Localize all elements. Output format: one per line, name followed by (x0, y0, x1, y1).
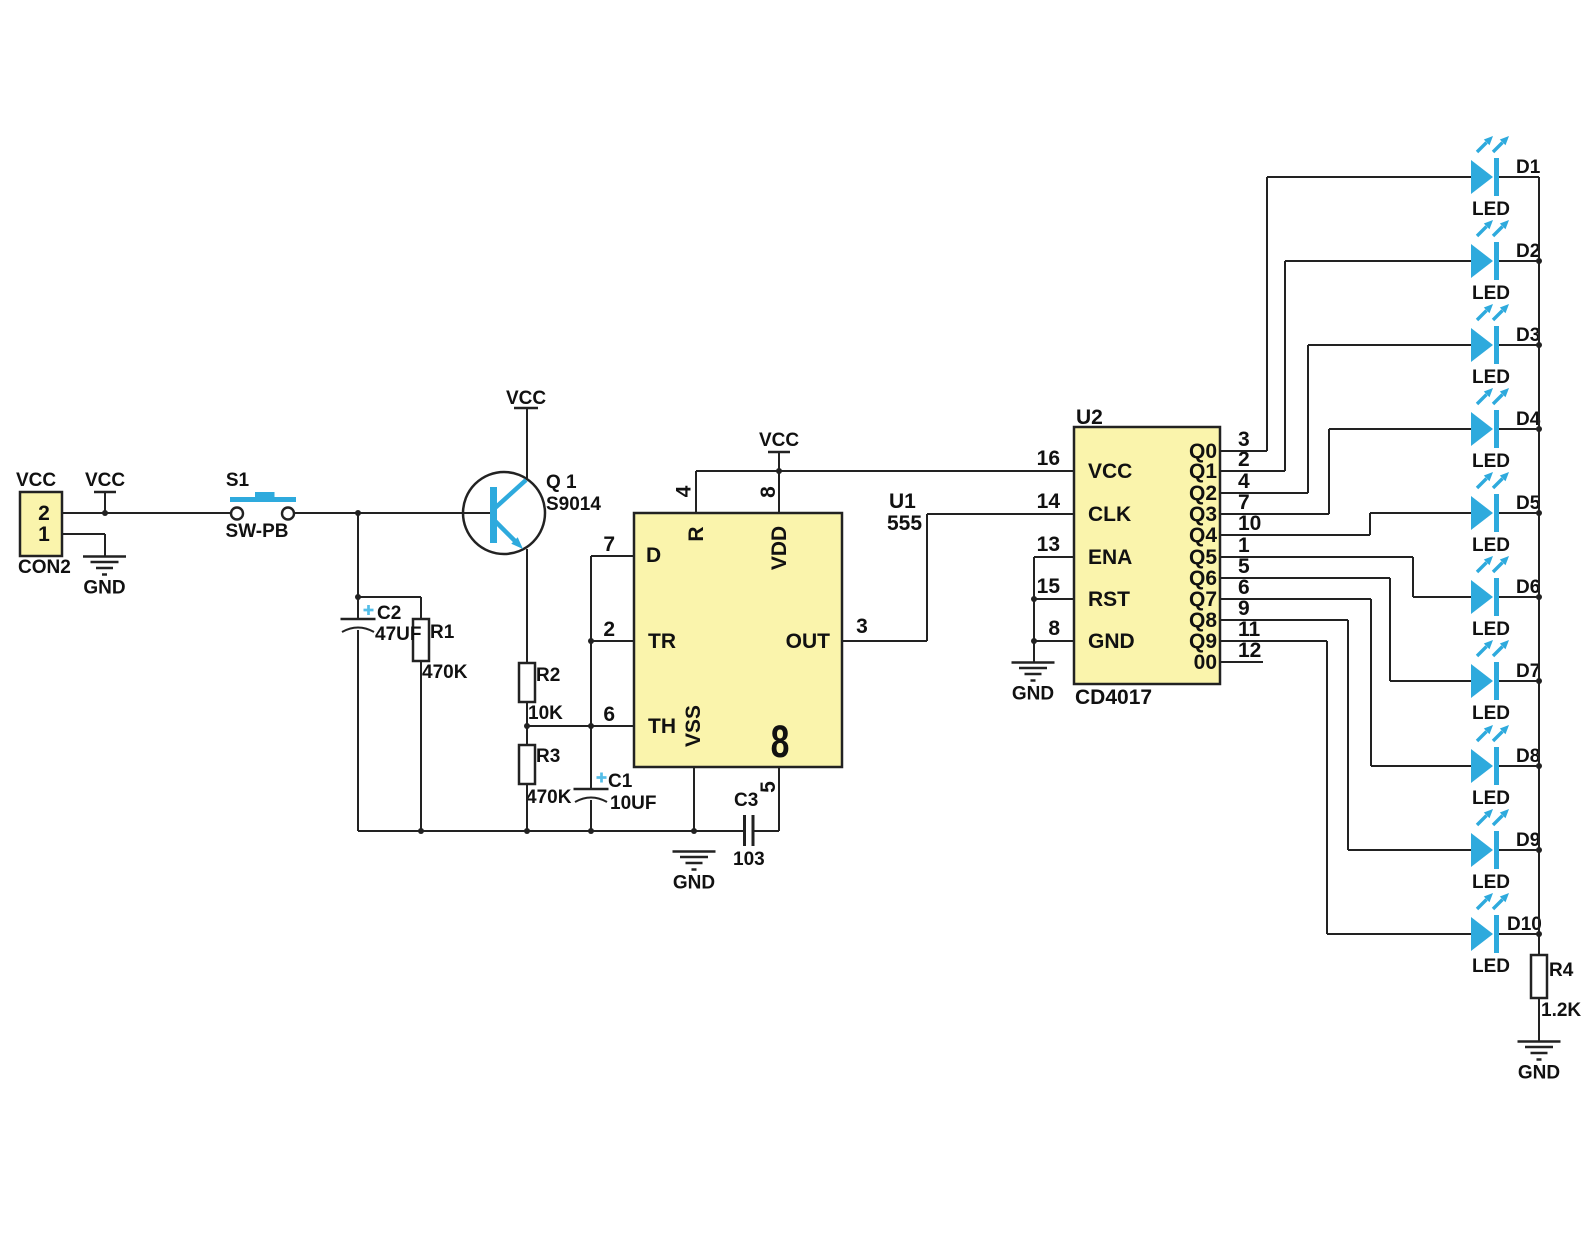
svg-text:CLK: CLK (1088, 503, 1131, 526)
svg-text:2: 2 (38, 502, 50, 525)
svg-text:Q1: Q1 (1189, 460, 1217, 483)
svg-text:Q9: Q9 (1189, 630, 1217, 653)
svg-text:LED: LED (1472, 619, 1510, 640)
svg-text:VCC: VCC (506, 388, 546, 409)
svg-text:Q8: Q8 (1189, 609, 1217, 632)
svg-text:7: 7 (1238, 491, 1250, 514)
svg-text:C2: C2 (377, 603, 401, 624)
svg-text:D2: D2 (1516, 241, 1540, 262)
svg-text:10: 10 (1238, 512, 1261, 535)
svg-text:R3: R3 (536, 746, 560, 767)
svg-text:CON2: CON2 (18, 557, 71, 578)
svg-text:3: 3 (856, 615, 868, 638)
svg-text:TH: TH (648, 715, 676, 738)
svg-text:GND: GND (83, 578, 125, 599)
svg-text:5: 5 (1238, 555, 1250, 578)
svg-text:LED: LED (1472, 872, 1510, 893)
svg-text:S9014: S9014 (546, 494, 601, 515)
svg-text:CD4017: CD4017 (1075, 686, 1152, 709)
svg-text:C3: C3 (734, 790, 758, 811)
svg-text:Q 1: Q 1 (546, 472, 577, 493)
svg-text:13: 13 (1037, 533, 1060, 556)
svg-text:D6: D6 (1516, 577, 1540, 598)
svg-text:47UF: 47UF (375, 624, 421, 645)
svg-text:470K: 470K (422, 662, 468, 683)
svg-text:2: 2 (603, 618, 615, 641)
svg-text:Q3: Q3 (1189, 503, 1217, 526)
svg-text:D7: D7 (1516, 661, 1540, 682)
svg-text:D1: D1 (1516, 157, 1541, 178)
svg-text:LED: LED (1472, 451, 1510, 472)
svg-text:TR: TR (648, 630, 676, 653)
svg-text:10UF: 10UF (610, 793, 656, 814)
svg-text:D9: D9 (1516, 830, 1540, 851)
svg-text:GND: GND (1012, 684, 1054, 705)
svg-text:ENA: ENA (1088, 546, 1132, 569)
svg-text:D: D (646, 544, 661, 567)
svg-text:103: 103 (733, 849, 765, 870)
svg-text:LED: LED (1472, 956, 1510, 977)
svg-text:Q4: Q4 (1189, 524, 1217, 547)
svg-text:GND: GND (1518, 1063, 1560, 1084)
svg-text:R: R (685, 526, 708, 541)
svg-text:U2: U2 (1076, 406, 1103, 429)
svg-text:LED: LED (1472, 199, 1510, 220)
svg-text:16: 16 (1037, 447, 1060, 470)
svg-text:OUT: OUT (786, 630, 831, 653)
svg-text:11: 11 (1238, 618, 1261, 641)
svg-text:R4: R4 (1549, 960, 1574, 981)
svg-text:U1: U1 (889, 490, 916, 513)
svg-text:12: 12 (1238, 639, 1261, 662)
svg-text:LED: LED (1472, 283, 1510, 304)
svg-text:10K: 10K (528, 703, 563, 724)
svg-text:Q5: Q5 (1189, 546, 1217, 569)
svg-text:D3: D3 (1516, 325, 1540, 346)
svg-text:VCC: VCC (759, 430, 799, 451)
svg-text:1: 1 (38, 523, 50, 546)
svg-text:6: 6 (1238, 576, 1250, 599)
svg-text:4: 4 (673, 485, 696, 497)
svg-text:GND: GND (673, 873, 715, 894)
svg-text:GND: GND (1088, 630, 1135, 653)
svg-text:Q2: Q2 (1189, 482, 1217, 505)
svg-text:C1: C1 (608, 771, 633, 792)
svg-text:470K: 470K (526, 787, 572, 808)
svg-text:D10: D10 (1507, 914, 1542, 935)
svg-text:8: 8 (757, 486, 780, 498)
svg-text:LED: LED (1472, 703, 1510, 724)
svg-text:1: 1 (1238, 534, 1250, 557)
svg-text:RST: RST (1088, 588, 1130, 611)
svg-text:15: 15 (1037, 575, 1061, 598)
svg-text:SW-PB: SW-PB (226, 521, 289, 542)
svg-text:1.2K: 1.2K (1541, 1000, 1581, 1021)
svg-text:R1: R1 (430, 622, 455, 643)
svg-text:6: 6 (603, 703, 615, 726)
svg-text:S1: S1 (226, 470, 250, 491)
svg-text:00: 00 (1194, 651, 1217, 674)
svg-text:5: 5 (757, 781, 780, 793)
svg-text:LED: LED (1472, 535, 1510, 556)
svg-text:VSS: VSS (682, 705, 705, 747)
svg-text:Q7: Q7 (1189, 588, 1217, 611)
svg-text:VDD: VDD (768, 526, 791, 570)
svg-text:VCC: VCC (85, 470, 125, 491)
svg-text:LED: LED (1472, 367, 1510, 388)
svg-text:555: 555 (887, 512, 922, 535)
svg-text:14: 14 (1037, 490, 1061, 513)
svg-text:R2: R2 (536, 665, 560, 686)
svg-text:Q6: Q6 (1189, 567, 1217, 590)
svg-text:VCC: VCC (1088, 460, 1132, 483)
svg-text:D8: D8 (1516, 746, 1540, 767)
svg-text:7: 7 (603, 533, 615, 556)
svg-text:9: 9 (1238, 597, 1250, 620)
svg-text:VCC: VCC (16, 470, 56, 491)
svg-text:4: 4 (1238, 470, 1250, 493)
svg-text:8: 8 (1048, 617, 1060, 640)
svg-text:LED: LED (1472, 788, 1510, 809)
svg-text:8: 8 (771, 717, 790, 767)
